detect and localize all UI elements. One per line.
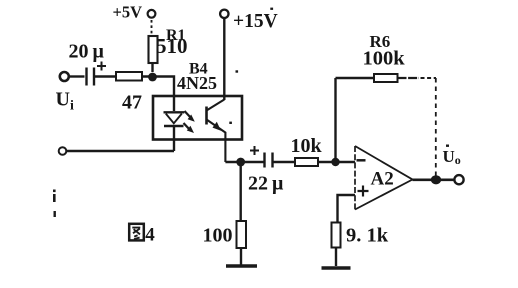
svg-text:9. 1k: 9. 1k (346, 225, 389, 247)
svg-text:22μ: 22μ (248, 173, 284, 195)
svg-text:10k: 10k (291, 135, 323, 157)
svg-text:+15V: +15V (233, 11, 278, 32)
svg-text:4N25: 4N25 (177, 73, 217, 93)
svg-text:510: 510 (156, 34, 188, 58)
svg-text:+5V: +5V (113, 3, 143, 22)
svg-text:47: 47 (122, 92, 142, 114)
svg-text:4: 4 (145, 225, 155, 246)
svg-text:100: 100 (203, 225, 233, 247)
svg-text:100k: 100k (363, 48, 406, 70)
svg-text:A2: A2 (371, 169, 394, 190)
svg-text:20μ: 20μ (69, 41, 105, 63)
